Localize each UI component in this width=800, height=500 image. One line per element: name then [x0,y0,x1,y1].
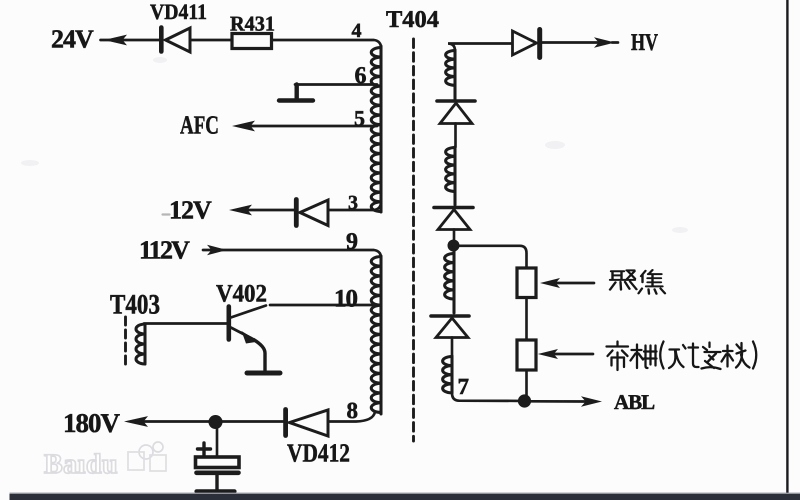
svg-text:6: 6 [355,63,367,89]
ABL node dot [518,394,531,407]
wire 12V arrow [229,205,252,216]
svg-text:HV: HV [631,30,659,56]
pin 9 wire with right arrow [203,249,214,252]
diode VD412 [286,410,328,437]
wire between resistors [525,298,528,341]
svg-text:5: 5 [354,106,365,131]
resistor R431 [232,34,272,49]
ground at emitter [247,371,280,376]
arrow to screen grid resistor [538,349,558,359]
focus resistor [517,268,536,298]
base wire T403 to V402 [144,322,227,325]
svg-text:Baıdu: Baıdu [44,449,118,480]
wire diode to pin 3 [328,202,381,210]
scan frame right line (decorative) [786,0,788,494]
wire pin 7 to ABL node [452,393,520,401]
ground at pin 6 [279,85,313,101]
transformer T404 primary winding upper [371,46,381,212]
svg-text:T403: T403 [110,290,160,321]
HV rectifier diode [513,30,540,58]
label juji (focus) [610,270,665,294]
pin 6 wire [295,83,377,86]
wire ABL arrow [531,400,586,403]
svg-text:9: 9 [346,229,358,255]
transformer T404 dashed core line [412,39,415,441]
HV stack diode D2 [434,208,473,242]
svg-text:12V: 12V [169,196,212,225]
scan frame bottom bar (decorative) [10,493,800,495]
secondary winding section 2 [446,147,455,205]
arrow to focus resistor [540,278,560,288]
svg-text:3: 3 [348,192,358,214]
faint minus before 12V [163,213,170,215]
pin 10 wire [270,304,377,307]
watermark [44,442,166,480]
wire to ABL node [525,370,528,398]
svg-text:4: 4 [352,20,362,42]
svg-text:180V: 180V [63,408,121,438]
HV stack diode D3 [431,316,469,358]
winding T403 [136,324,145,364]
svg-text:VD411: VD411 [150,0,207,24]
svg-text:ABL: ABL [614,390,655,414]
wire 180V arrow [124,416,148,427]
wire 24V arrow [104,35,127,46]
diode at pin 3 [296,200,328,226]
svg-text:8: 8 [347,398,359,423]
secondary winding section 4 [443,356,452,393]
svg-text:V402: V402 [216,281,267,308]
svg-text:T404: T404 [386,7,439,33]
svg-text:7: 7 [458,374,470,399]
wire diode to pin 8 [328,412,375,422]
diode VD411 [161,28,190,53]
label lianzha (screen grid / accelerator) [607,342,757,371]
HV stack diode D1 [437,101,475,147]
secondary winding section 1 [446,50,455,99]
ground below capacitor [197,489,235,493]
screen grid resistor [517,340,536,370]
secondary top wire [448,44,512,52]
svg-text:R431: R431 [230,12,275,36]
svg-text:AFC: AFC [180,111,219,140]
capacitor C [196,428,240,490]
svg-text:112V: 112V [139,236,190,265]
svg-text:24V: 24V [51,25,94,54]
secondary winding section 3 [445,250,454,313]
wire diode to resistor [190,39,232,42]
wire HV arrow [542,41,600,44]
pin 5 wire with arrow [232,121,255,132]
junction node dot [209,415,223,429]
svg-text:VD412: VD412 [287,439,350,468]
transistor V402 [229,306,266,371]
svg-text:10: 10 [334,286,358,313]
wire R431 to pin 4 [272,40,382,48]
transformer T404 primary winding lower [371,256,381,414]
wire node to divider [454,246,527,269]
T403 dashed core [124,317,127,366]
node junction to focus divider [448,240,460,252]
